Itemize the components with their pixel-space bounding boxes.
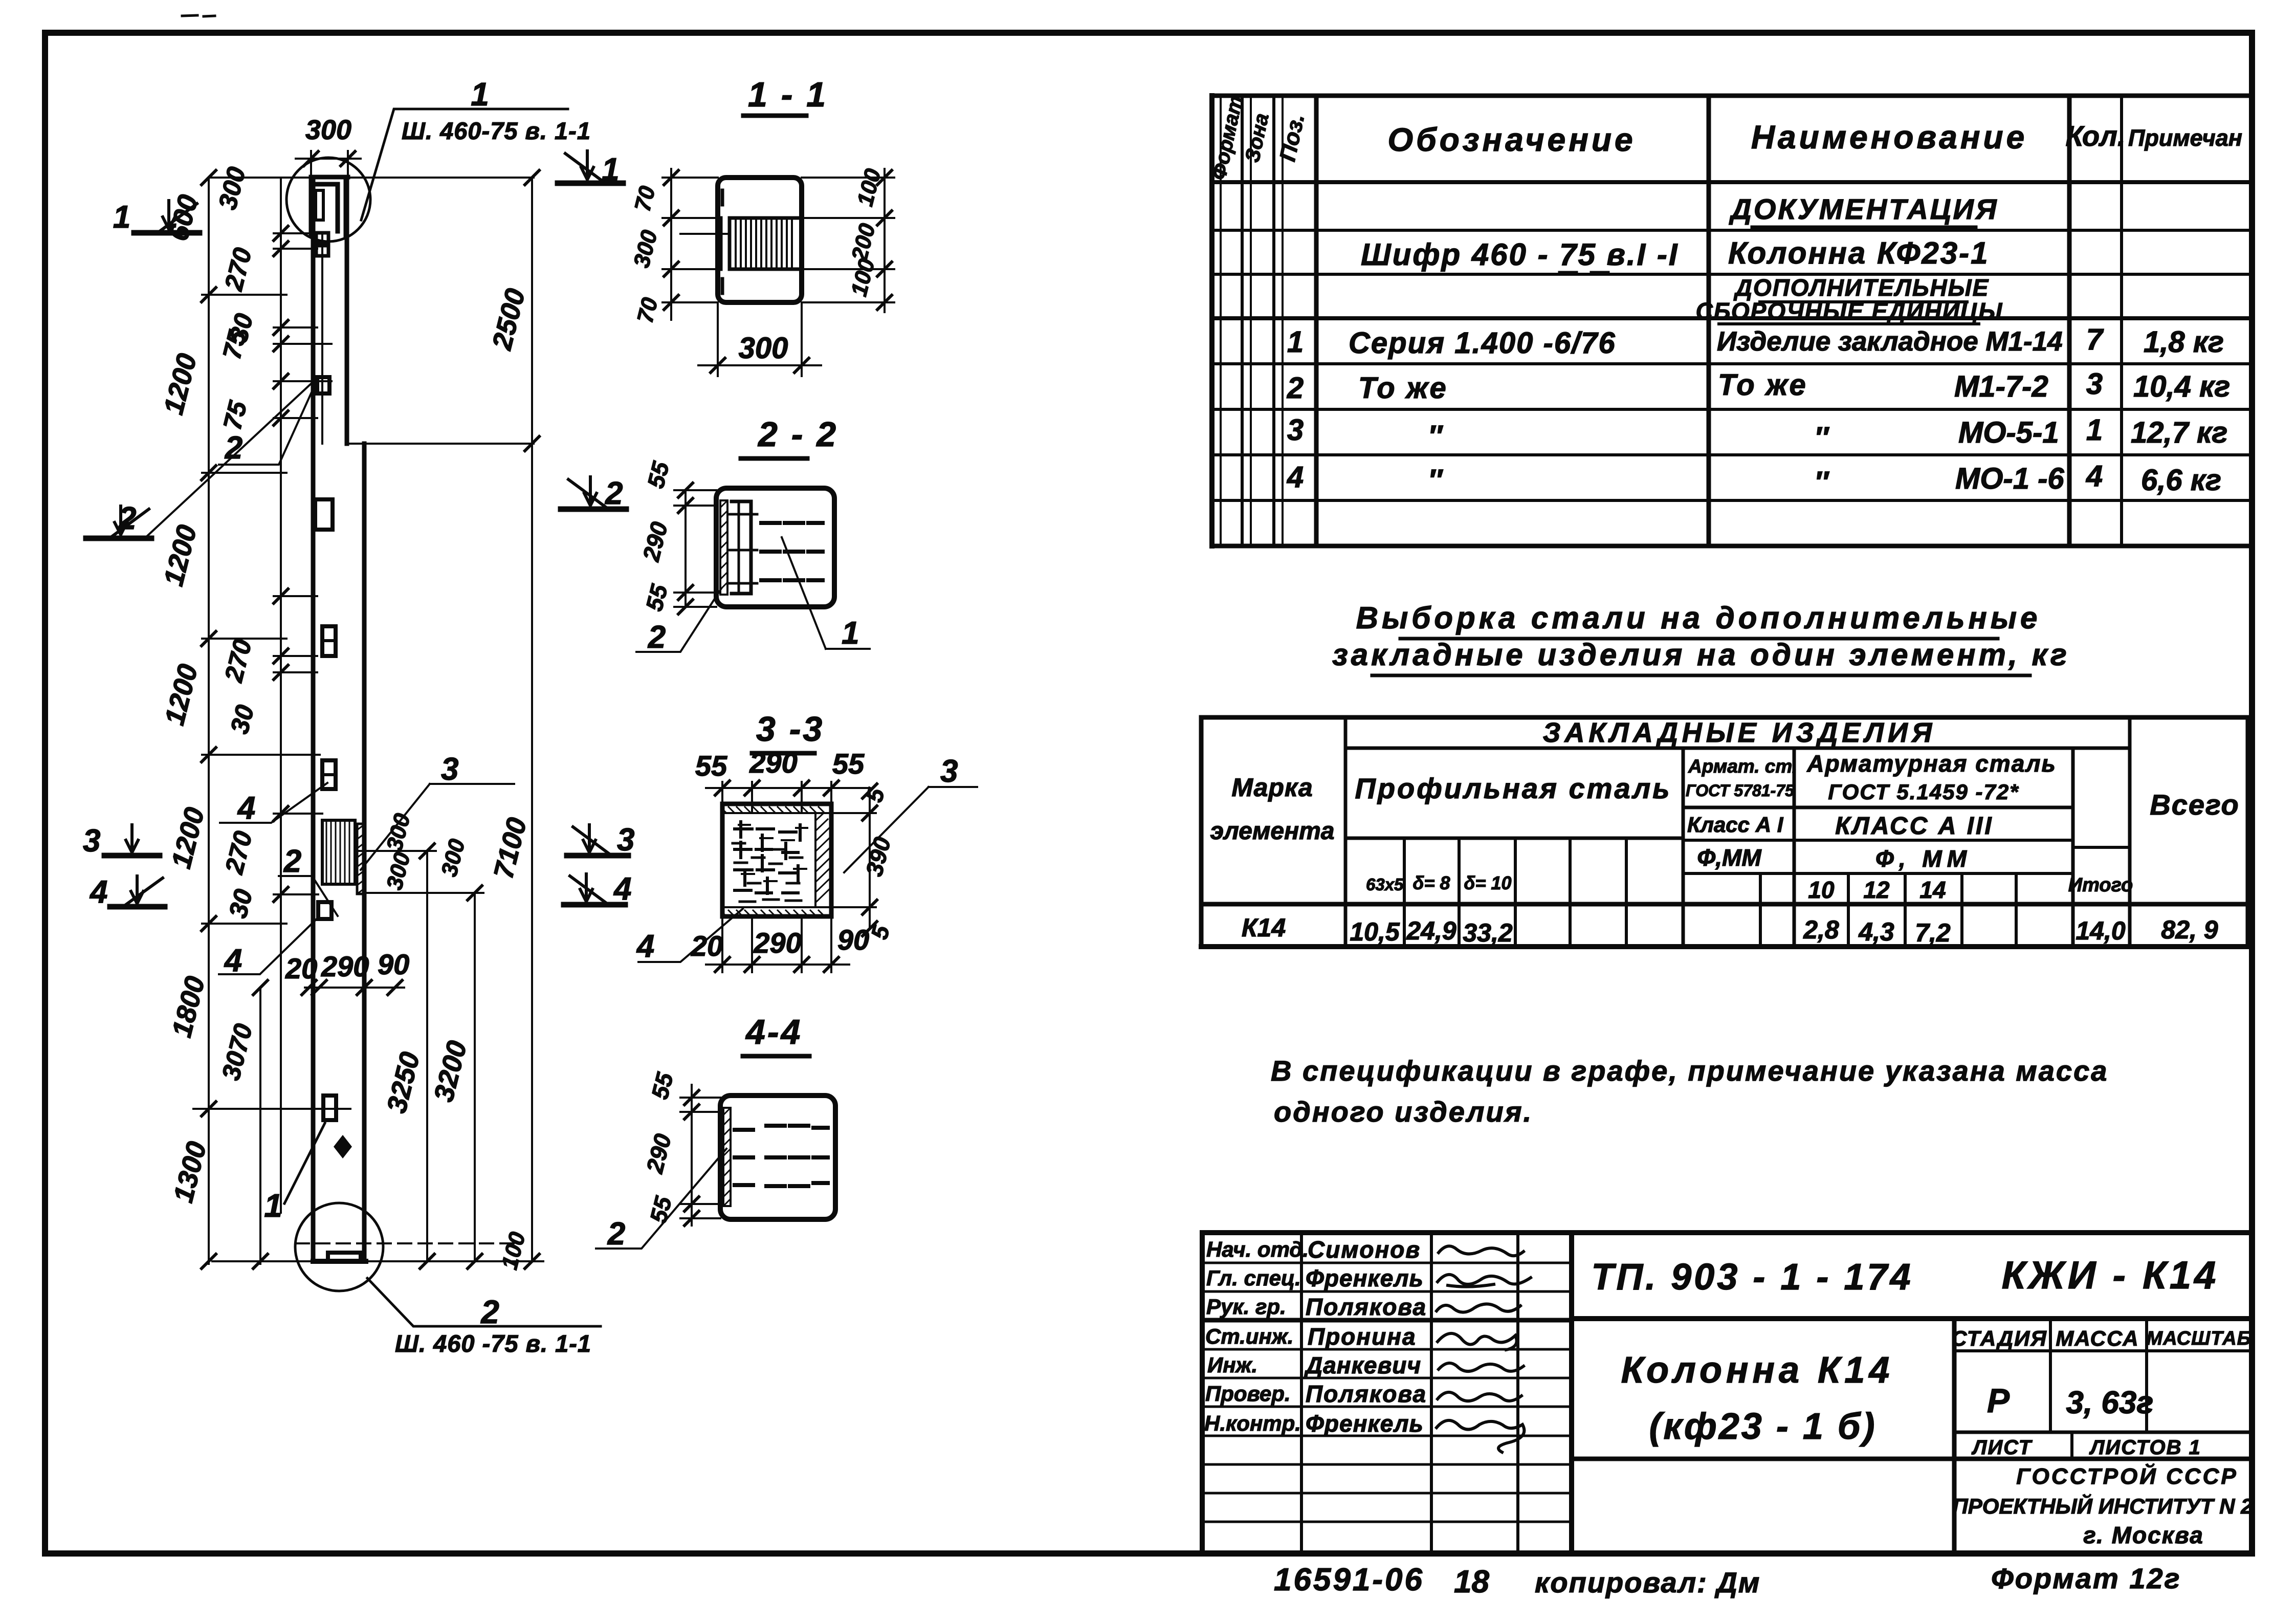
svg-text:1200: 1200	[166, 804, 210, 871]
chain B tick lines	[274, 233, 332, 894]
svg-text:δ= 10: δ= 10	[1464, 872, 1511, 893]
column right face upper	[345, 177, 349, 444]
svg-text:1: 1	[264, 1187, 282, 1224]
svg-text:10,5: 10,5	[1350, 917, 1400, 946]
svg-text:ДОПОЛНИТЕЛЬНЫЕ: ДОПОЛНИТЕЛЬНЫЕ	[1733, 274, 1990, 301]
svg-text:75: 75	[218, 398, 253, 433]
svg-text:4: 4	[237, 791, 255, 826]
section 3-3 right dim	[831, 791, 876, 929]
spec row 4	[1287, 459, 2221, 499]
chain A tick lines	[193, 295, 543, 1261]
section 3-3 top dim	[706, 782, 870, 813]
svg-text:3: 3	[83, 823, 100, 859]
3070 dim line	[259, 988, 261, 1264]
right dim slash ticks	[420, 170, 539, 1268]
svg-text:1200: 1200	[159, 661, 204, 728]
svg-text:1: 1	[113, 200, 130, 235]
svg-text:″: ″	[1428, 420, 1443, 453]
svg-text:ТП. 903 - 1 - 174: ТП. 903 - 1 - 174	[1591, 1257, 1913, 1298]
svg-text:Всего: Всего	[2150, 789, 2239, 821]
svg-text:Данкевич: Данкевич	[1304, 1352, 1421, 1378]
svg-text:300: 300	[436, 836, 470, 879]
svg-text:300: 300	[739, 332, 788, 365]
svg-text:100: 100	[846, 256, 879, 299]
svg-text:1: 1	[842, 616, 859, 651]
svg-text:Нач. отд.: Нач. отд.	[1206, 1237, 1309, 1261]
svg-text:55: 55	[641, 581, 673, 614]
svg-text:Марка: Марка	[1231, 773, 1313, 802]
svg-text:ПРОЕКТНЫЙ ИНСТИТУТ N 2: ПРОЕКТНЫЙ ИНСТИТУТ N 2	[1952, 1493, 2253, 1518]
svg-text:М1-7-2: М1-7-2	[1954, 370, 2048, 403]
svg-text:70: 70	[630, 183, 660, 214]
embedded plate marks on column	[316, 233, 328, 243]
section 2-2 left hatched strip	[720, 500, 727, 595]
svg-text:3: 3	[2086, 367, 2103, 401]
svg-text:ГОССТРОЙ СССР: ГОССТРОЙ СССР	[2016, 1463, 2238, 1489]
svg-text:2: 2	[480, 1294, 499, 1330]
svg-text:″: ″	[1428, 464, 1443, 497]
svg-text:270: 270	[219, 636, 257, 685]
rotated right dim labels	[381, 286, 533, 1272]
svg-text:Изделие закладное М1-14: Изделие закладное М1-14	[1717, 326, 2063, 357]
spec row 3	[1287, 413, 2227, 454]
svg-text:ГОСТ 5.1459 -72*: ГОСТ 5.1459 -72*	[1828, 780, 2019, 804]
svg-text:То же: То же	[1358, 371, 1448, 405]
svg-text:2 - 2: 2 - 2	[757, 415, 838, 454]
svg-text:5: 5	[860, 785, 890, 805]
section 1-1 right dim chain	[799, 178, 894, 302]
svg-text:270: 270	[219, 245, 257, 294]
svg-text:4: 4	[1287, 461, 1304, 494]
section marker 4 right	[564, 871, 631, 907]
leader 2 console plate	[279, 844, 338, 916]
svg-text:90: 90	[837, 924, 869, 956]
svg-text:100: 100	[852, 166, 886, 209]
section marker 1 right	[558, 151, 623, 187]
svg-text:2: 2	[283, 844, 301, 879]
signature table rows	[1202, 1262, 1572, 1264]
svg-text:Колонна КФ23-1: Колонна КФ23-1	[1728, 236, 1990, 270]
svg-text:63х5: 63х5	[1366, 875, 1404, 894]
spec table row: ДОПОЛНИТЕЛЬНЫЕ СБОРОЧНЫЕ ЕДИНИЦЫ	[1696, 274, 2003, 324]
column top cap box	[311, 177, 348, 235]
svg-text:2: 2	[225, 430, 242, 466]
section marker 4 left	[89, 874, 165, 910]
svg-text:300: 300	[382, 811, 415, 853]
svg-text:Симонов: Симонов	[1308, 1236, 1421, 1263]
svg-text:300: 300	[629, 227, 662, 270]
svg-text:(кф23 - 1 б): (кф23 - 1 б)	[1649, 1406, 1877, 1447]
spec table header texts	[1207, 94, 2242, 182]
leader 1 bottom	[264, 1123, 325, 1224]
chain B slash ticks	[274, 226, 288, 902]
steel table title	[1332, 601, 2070, 672]
svg-text:290: 290	[749, 747, 797, 779]
rotated dimension labels left chain A	[158, 192, 212, 1206]
svg-text:12,7 кг: 12,7 кг	[2131, 416, 2227, 449]
svg-text:3 -3: 3 -3	[756, 710, 824, 749]
section marker 3 left	[83, 823, 160, 859]
svg-text:16591-06: 16591-06	[1274, 1562, 1424, 1597]
bottom detail circle	[295, 1203, 383, 1291]
svg-text:2: 2	[605, 476, 623, 511]
svg-text:1: 1	[602, 152, 619, 187]
section 3-3 bottom dim	[706, 916, 849, 972]
svg-text:300: 300	[305, 115, 351, 145]
svg-text:МАСШТАБ: МАСШТАБ	[2147, 1328, 2251, 1349]
section 4-4 left dims	[680, 1098, 720, 1218]
3250 dim line	[426, 851, 428, 1261]
svg-text:290: 290	[321, 950, 369, 982]
section 4-4 body	[720, 1096, 835, 1219]
svg-text:Поз.: Поз.	[1275, 112, 1309, 163]
svg-text:Провер.: Провер.	[1205, 1382, 1291, 1406]
column bottom face	[313, 1259, 366, 1264]
svg-text:закладные изделия на один: закладные изделия на один элемент, кг	[1332, 638, 2070, 672]
section 1-1 left mid line	[680, 233, 730, 235]
bottom embedded plate box	[328, 1253, 361, 1261]
svg-text:3: 3	[940, 754, 958, 789]
svg-text:Кол.: Кол.	[2066, 120, 2126, 152]
svg-text:″: ″	[1814, 466, 1829, 499]
svg-text:Полякова: Полякова	[1306, 1294, 1427, 1320]
svg-text:24,9: 24,9	[1406, 916, 1456, 945]
section 1-1 left chain	[670, 169, 672, 320]
svg-text:ЛИСТ: ЛИСТ	[1971, 1436, 2033, 1459]
svg-text:Класс А I: Класс А I	[1687, 813, 1784, 837]
svg-text:100: 100	[497, 1229, 530, 1272]
svg-text:СТАДИЯ: СТАДИЯ	[1951, 1326, 2047, 1350]
svg-text:4: 4	[2086, 459, 2103, 493]
svg-text:Инж.: Инж.	[1207, 1353, 1257, 1377]
svg-text:МО-5-1: МО-5-1	[1958, 416, 2059, 449]
svg-text:МО-1 -6: МО-1 -6	[1955, 462, 2064, 495]
section 2-2 body	[716, 488, 834, 607]
svg-text:Френкель: Френкель	[1306, 1410, 1424, 1437]
svg-text:30: 30	[224, 886, 258, 921]
svg-text:4: 4	[224, 943, 242, 978]
svg-text:То же: То же	[1718, 368, 1807, 402]
svg-text:3: 3	[1287, 413, 1304, 447]
section 4-4 left hatched strip	[723, 1108, 731, 1206]
svg-text:55: 55	[695, 750, 727, 782]
section marker 3 right	[567, 822, 634, 858]
svg-text:70: 70	[632, 295, 663, 325]
svg-text:Шифр 460 - 75 в.I -I: Шифр 460 - 75 в.I -I	[1361, 237, 1679, 272]
main dividers	[1572, 1316, 2252, 1321]
steel table grid	[1201, 717, 2248, 947]
svg-text:δ= 8: δ= 8	[1412, 872, 1450, 893]
svg-text:Итого: Итого	[2068, 874, 2133, 896]
svg-text:2: 2	[118, 501, 136, 536]
svg-text:1,8 кг: 1,8 кг	[2144, 325, 2224, 359]
svg-text:2: 2	[648, 620, 666, 655]
svg-text:10: 10	[1808, 877, 1835, 903]
svg-text:30: 30	[225, 702, 260, 737]
svg-text:2500: 2500	[487, 286, 532, 353]
3200 dim line	[474, 893, 476, 1261]
svg-text:2: 2	[1287, 371, 1304, 405]
svg-text:Серия 1.400 -6/76: Серия 1.400 -6/76	[1349, 326, 1616, 360]
top extension line	[209, 177, 534, 179]
section marker 2 right	[561, 476, 626, 511]
spec table row: Шифр 460-75 / Колонна КФ23-1	[1361, 236, 1990, 272]
svg-text:300: 300	[382, 849, 415, 892]
svg-text:Арматурная сталь: Арматурная сталь	[1806, 750, 2057, 777]
svg-text:Н.контр.: Н.контр.	[1204, 1411, 1301, 1435]
section 2-2 leader 1	[782, 537, 870, 649]
svg-text:290: 290	[753, 927, 801, 959]
column inner left line	[321, 233, 323, 444]
svg-text:копировал: Дм: копировал: Дм	[1535, 1566, 1760, 1599]
top 300 dim	[296, 151, 361, 174]
svg-text:10,4 кг: 10,4 кг	[2133, 370, 2230, 403]
svg-text:4: 4	[613, 871, 631, 907]
column right face lower	[362, 444, 367, 1261]
svg-text:300: 300	[213, 164, 251, 212]
section 1-1 hatch	[736, 218, 792, 269]
svg-text:33,2: 33,2	[1463, 918, 1513, 947]
svg-text:2: 2	[607, 1216, 625, 1252]
svg-text:Профильная сталь: Профильная сталь	[1355, 772, 1672, 804]
svg-text:1200: 1200	[158, 351, 203, 418]
section 3-3 inner reinforcement dashes	[735, 822, 800, 893]
svg-text:Армат. ст.: Армат. ст.	[1688, 756, 1797, 777]
svg-text:55: 55	[645, 1193, 677, 1226]
svg-text:1 - 1: 1 - 1	[748, 75, 828, 114]
svg-text:3, 63г: 3, 63г	[2066, 1385, 2154, 1420]
signatures (squiggles)	[1437, 1246, 1531, 1452]
title block name texts	[1304, 1236, 1427, 1437]
bottom dashed line	[296, 1242, 519, 1244]
svg-text:Ст.инж.: Ст.инж.	[1205, 1324, 1293, 1348]
svg-text:Формат 12г: Формат 12г	[1991, 1562, 2181, 1594]
leader 2 upper plate	[146, 383, 313, 537]
svg-text:г. Москва: г. Москва	[2083, 1522, 2204, 1548]
svg-text:Колонна К14: Колонна К14	[1621, 1350, 1894, 1391]
svg-text:Выборка стали на дополнител: Выборка стали на дополнительные	[1356, 601, 2041, 635]
svg-text:7100: 7100	[488, 815, 533, 882]
leader 3 console	[361, 752, 514, 870]
leader 4 lower	[219, 918, 317, 978]
svg-text:Примечан: Примечан	[2128, 125, 2242, 151]
leader 4 upper	[220, 783, 327, 826]
svg-text:7: 7	[2086, 323, 2104, 356]
section 3-3 body	[722, 804, 831, 916]
spec table row: ДОКУМЕНТАЦИЯ	[1729, 193, 1998, 225]
svg-text:Рук. гр.: Рук. гр.	[1206, 1295, 1286, 1319]
section 3-3 leader 3	[844, 787, 977, 872]
spec row 1	[1287, 323, 2224, 360]
svg-text:5: 5	[866, 922, 895, 942]
signature table verticals	[1300, 1233, 1303, 1553]
svg-text:″: ″	[1814, 421, 1829, 454]
svg-text:ЛИСТОВ 1: ЛИСТОВ 1	[2089, 1436, 2201, 1459]
console (item 3) hatched	[322, 820, 365, 894]
svg-text:55: 55	[832, 748, 865, 780]
svg-text:290: 290	[637, 519, 673, 564]
section marker 2 left	[86, 501, 151, 538]
rotated dimension labels chain B	[213, 164, 259, 1083]
section 2-2 channel	[732, 501, 751, 594]
svg-text:3: 3	[441, 752, 458, 787]
svg-text:Ф, ММ: Ф, ММ	[1875, 845, 1972, 872]
svg-text:ГОСТ 5781-75: ГОСТ 5781-75	[1686, 781, 1795, 800]
svg-text:4-4: 4-4	[745, 1013, 802, 1052]
chain A slash ticks	[202, 170, 268, 1268]
svg-text:7,2: 7,2	[1915, 918, 1951, 947]
svg-text:Наименование: Наименование	[1751, 119, 2027, 156]
step at right face	[347, 443, 534, 445]
column left face	[311, 177, 316, 1261]
section 4-4 leader 2	[596, 1149, 726, 1249]
svg-text:Полякова: Полякова	[1306, 1381, 1427, 1407]
svg-text:200: 200	[847, 221, 880, 264]
section 2-2 left dims	[674, 490, 716, 607]
svg-text:одного изделия.: одного изделия.	[1274, 1096, 1533, 1128]
svg-text:1200: 1200	[158, 522, 203, 589]
callout 2 bottom	[367, 1278, 601, 1357]
svg-text:Зона: Зона	[1241, 112, 1273, 165]
svg-text:К14: К14	[1242, 913, 1286, 942]
title block role texts	[1204, 1237, 1309, 1435]
svg-text:290: 290	[641, 1131, 676, 1176]
title block main texts	[1591, 1254, 2253, 1548]
diamond mark	[334, 1135, 352, 1158]
svg-text:МАССА: МАССА	[2056, 1326, 2139, 1350]
console bottom dim 20 290 90	[305, 987, 404, 989]
section 2-2 leader 2	[636, 588, 721, 652]
svg-text:Пронина: Пронина	[1308, 1323, 1417, 1350]
svg-text:14: 14	[1919, 877, 1946, 903]
svg-text:элемента: элемента	[1210, 818, 1335, 845]
spec table grid	[1212, 94, 2252, 98]
svg-text:3070: 3070	[216, 1021, 258, 1083]
top margin dashes	[182, 15, 215, 16]
section 1-1 bottom dim 300	[698, 302, 821, 376]
svg-text:КЖИ - К14: КЖИ - К14	[2002, 1254, 2219, 1297]
section 1-1 body	[718, 178, 802, 302]
svg-text:Р: Р	[1987, 1382, 2010, 1419]
svg-text:1300: 1300	[168, 1139, 212, 1206]
svg-text:4: 4	[636, 929, 654, 964]
svg-text:18: 18	[1454, 1564, 1489, 1600]
svg-text:1: 1	[2086, 413, 2103, 447]
dimension chain line B	[280, 178, 282, 1213]
svg-text:1: 1	[1287, 325, 1304, 359]
svg-text:20: 20	[691, 930, 723, 962]
callout 1 top (node)	[361, 76, 591, 220]
title block outer	[1202, 1230, 2252, 1235]
steel table header texts	[1210, 717, 2240, 903]
svg-text:Гл. спец.: Гл. спец.	[1206, 1266, 1301, 1290]
svg-text:Ф,ММ: Ф,ММ	[1697, 844, 1762, 871]
svg-text:3250: 3250	[381, 1049, 426, 1116]
svg-text:20: 20	[285, 952, 317, 984]
section marker 1 left	[113, 200, 200, 235]
svg-text:14,0: 14,0	[2076, 916, 2126, 945]
svg-text:Френкель: Френкель	[1306, 1265, 1424, 1291]
svg-text:3200: 3200	[428, 1038, 473, 1105]
steel table data row	[1242, 913, 2218, 947]
svg-text:ЗАКЛАДНЫЕ ИЗДЕЛИЯ: ЗАКЛАДНЫЕ ИЗДЕЛИЯ	[1543, 717, 1936, 748]
section 3-3 leader 4	[638, 909, 743, 962]
svg-text:12: 12	[1863, 877, 1890, 903]
svg-text:6,6 кг: 6,6 кг	[2141, 464, 2221, 497]
svg-text:4: 4	[89, 874, 107, 910]
svg-text:2,8: 2,8	[1803, 915, 1839, 944]
svg-text:390: 390	[860, 834, 896, 879]
svg-text:В спецификации в графе, при: В спецификации в графе, примечание указа…	[1271, 1055, 2108, 1087]
svg-text:270: 270	[219, 828, 258, 877]
svg-text:ДОКУМЕНТАЦИЯ: ДОКУМЕНТАЦИЯ	[1729, 193, 1998, 225]
svg-text:4,3: 4,3	[1858, 917, 1894, 946]
svg-text:55: 55	[646, 1069, 678, 1102]
svg-text:Ш. 460-75 в. 1-1: Ш. 460-75 в. 1-1	[402, 117, 591, 144]
section 2-2 dashes	[761, 523, 823, 580]
section 4-4 dashes	[735, 1126, 828, 1186]
svg-text:КЛАСС А III: КЛАСС А III	[1835, 813, 1993, 840]
svg-text:Обозначение: Обозначение	[1387, 121, 1636, 158]
top detail circle	[286, 158, 370, 242]
dimension chain line A	[208, 178, 210, 1264]
svg-text:1800: 1800	[166, 973, 211, 1040]
svg-text:3: 3	[617, 822, 634, 858]
section 3-3 hatched border strips	[722, 812, 831, 814]
svg-text:1: 1	[471, 76, 489, 113]
bottom handwritten annotations	[1274, 1562, 2181, 1600]
svg-text:55: 55	[642, 458, 674, 491]
svg-text:82, 9: 82, 9	[2161, 915, 2218, 944]
svg-text:90: 90	[378, 948, 409, 980]
spec row 2	[1287, 367, 2230, 405]
right dim line 2500/7100	[531, 178, 533, 1261]
svg-text:Ш. 460 -75 в. 1-1: Ш. 460 -75 в. 1-1	[395, 1330, 591, 1357]
